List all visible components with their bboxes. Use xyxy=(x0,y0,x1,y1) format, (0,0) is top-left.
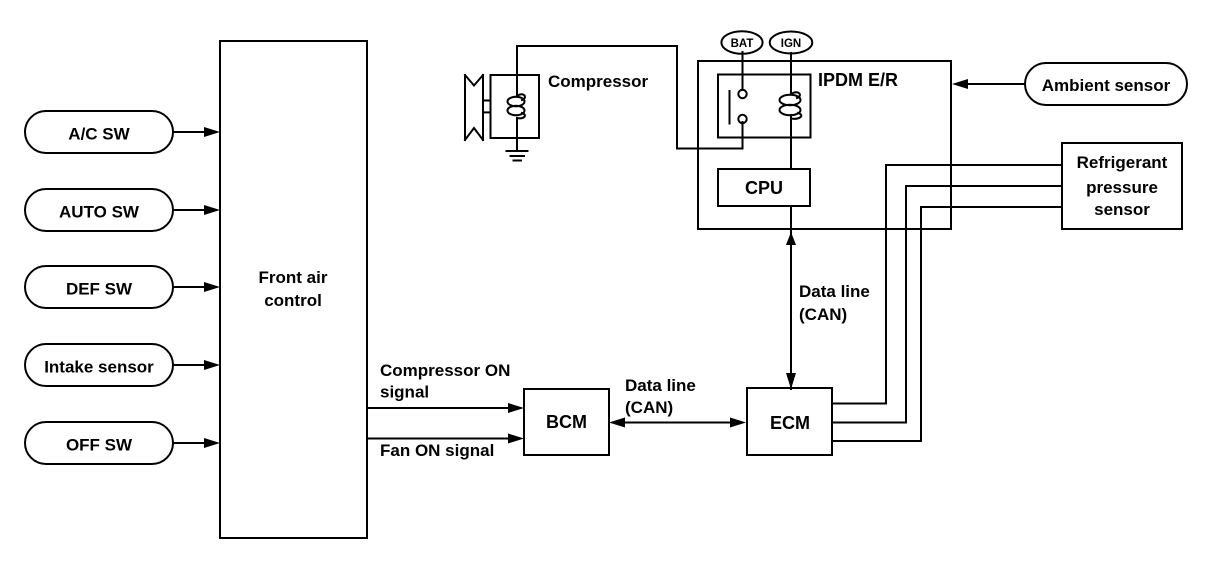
svg-text:control: control xyxy=(264,291,322,310)
node AUTO SW xyxy=(25,189,173,231)
svg-text:BAT: BAT xyxy=(731,38,754,50)
wire Fan ON signal xyxy=(367,434,524,444)
relay coil xyxy=(780,53,802,169)
svg-text:OFF SW: OFF SW xyxy=(66,436,133,455)
svg-text:Ambient sensor: Ambient sensor xyxy=(1042,76,1171,95)
svg-text:Refrigerant: Refrigerant xyxy=(1077,153,1168,172)
wire OFF SW to Front air control xyxy=(173,438,220,448)
svg-text:Intake sensor: Intake sensor xyxy=(44,358,154,377)
IGN supply xyxy=(770,32,813,54)
node Intake sensor xyxy=(25,344,173,386)
svg-text:sensor: sensor xyxy=(1094,200,1150,219)
node DEF SW xyxy=(25,266,173,308)
compressor body box xyxy=(491,75,540,138)
wire CPU to ECM data line xyxy=(786,206,796,389)
wire DEF SW to Front air control xyxy=(173,282,220,292)
ground xyxy=(507,138,528,161)
wire refrigerant sensor line 2 to ECM xyxy=(832,186,1062,423)
svg-text:pressure: pressure xyxy=(1086,178,1158,197)
svg-text:(CAN): (CAN) xyxy=(625,398,673,417)
block IPDM E/R xyxy=(698,61,951,229)
wire compressor to relay contact xyxy=(517,46,743,149)
label Compressor ON signal xyxy=(380,361,510,402)
wire Intake sensor to Front air control xyxy=(173,360,220,370)
compressor clutch pulley xyxy=(465,75,491,140)
svg-text:AUTO SW: AUTO SW xyxy=(59,203,140,222)
svg-text:signal: signal xyxy=(380,383,429,402)
svg-text:IGN: IGN xyxy=(781,38,801,50)
label Data line (CAN) horizontal xyxy=(625,376,696,417)
wire BCM to ECM data line xyxy=(609,418,746,428)
svg-text:ECM: ECM xyxy=(770,413,810,433)
block Refrigerant pressure sensor xyxy=(1062,143,1182,229)
relay box xyxy=(718,75,811,138)
svg-text:Compressor: Compressor xyxy=(548,72,649,91)
relay contact xyxy=(730,52,747,149)
block Front air control xyxy=(220,41,367,538)
block BCM xyxy=(524,389,609,455)
node Ambient sensor xyxy=(1025,63,1187,105)
wire refrigerant sensor line 1 to ECM xyxy=(832,165,1062,404)
svg-text:IPDM E/R: IPDM E/R xyxy=(818,70,898,90)
block CPU xyxy=(718,169,810,206)
wire Ambient sensor to IPDM xyxy=(952,79,1025,89)
block ECM xyxy=(747,388,832,455)
node OFF SW xyxy=(25,422,173,464)
node A/C SW xyxy=(25,111,173,153)
svg-text:BCM: BCM xyxy=(546,412,587,432)
wire Compressor ON signal xyxy=(367,403,524,413)
svg-text:Data line: Data line xyxy=(799,282,870,301)
svg-text:Compressor ON: Compressor ON xyxy=(380,361,510,380)
svg-text:CPU: CPU xyxy=(745,178,783,198)
svg-text:Fan ON signal: Fan ON signal xyxy=(380,441,494,460)
label Data line (CAN) vertical xyxy=(799,282,870,324)
compressor coil xyxy=(508,75,525,138)
svg-text:Front air: Front air xyxy=(259,268,328,287)
wire A/C SW to Front air control xyxy=(173,127,220,137)
svg-text:DEF SW: DEF SW xyxy=(66,280,133,299)
BAT supply xyxy=(721,31,762,54)
wire refrigerant sensor line 3 to ECM xyxy=(832,207,1062,441)
svg-text:Data line: Data line xyxy=(625,376,696,395)
svg-text:(CAN): (CAN) xyxy=(799,305,847,324)
svg-text:A/C SW: A/C SW xyxy=(68,125,130,144)
wire AUTO SW to Front air control xyxy=(173,205,220,215)
